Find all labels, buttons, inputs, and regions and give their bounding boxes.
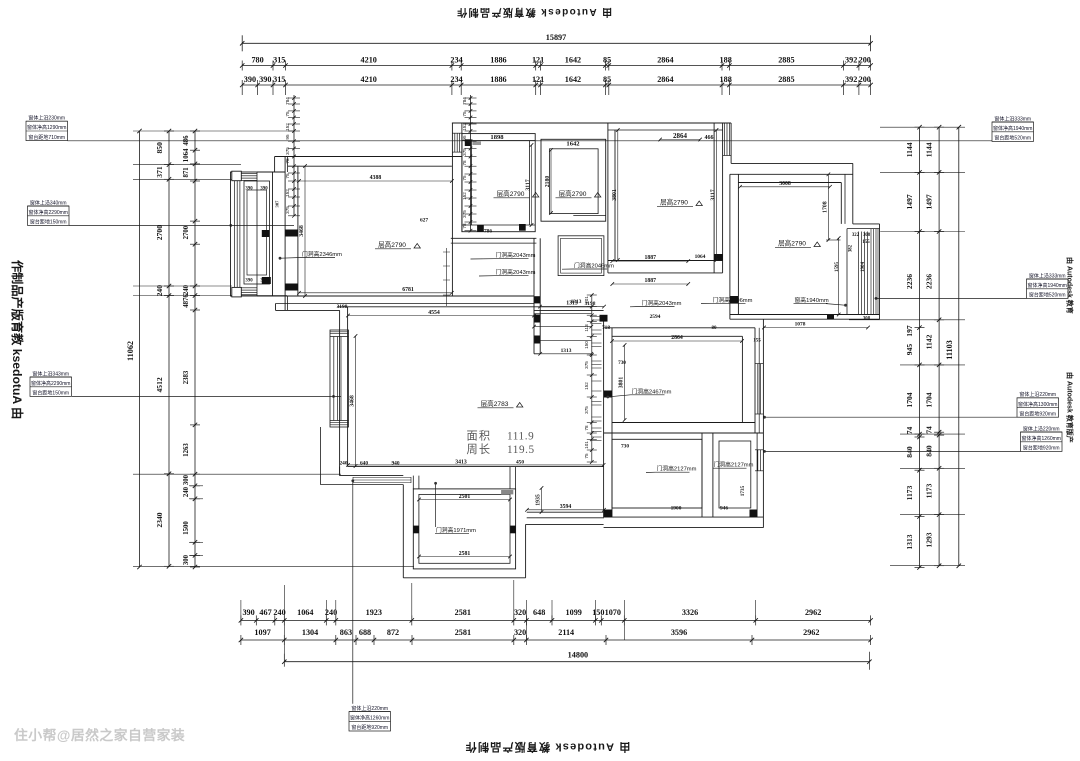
bedroom2 east window [846,229,848,315]
living room south wall inner [285,295,534,297]
svg-text:3413: 3413 [455,460,467,466]
corridor south wall line [534,309,604,311]
svg-text:234: 234 [450,75,462,84]
svg-text:1070: 1070 [605,608,621,617]
svg-text:窗体上沿220mm: 窗体上沿220mm [351,705,388,712]
svg-text:940: 940 [391,461,399,467]
svg-text:152: 152 [462,123,467,131]
east outline vertical 1 [730,123,732,163]
svg-text:面积: 面积 [467,430,492,443]
svg-text:784: 784 [462,97,467,105]
svg-text:95: 95 [462,135,467,141]
bedroom1 east inner [713,123,715,273]
svg-text:101: 101 [584,296,589,304]
dim line 14800 [284,661,869,663]
svg-text:1500: 1500 [183,521,190,535]
svg-text:窗体净高2290mm: 窗体净高2290mm [29,209,68,216]
svg-text:240: 240 [325,608,337,617]
svg-text:152: 152 [584,382,589,390]
bedroom3 south inner [612,422,755,424]
bedroom3 north outer [604,327,755,329]
svg-text:392: 392 [845,75,857,84]
entry door hatch [452,132,462,134]
room K2 [541,139,606,221]
svg-text:2864: 2864 [657,56,673,65]
bedroom2 east inner upper [840,183,842,224]
svg-text:872: 872 [387,628,399,637]
east outline vertical 2 [852,163,854,224]
svg-text:1735: 1735 [740,485,746,496]
svg-text:627: 627 [420,218,428,224]
svg-text:240: 240 [155,285,164,297]
svg-text:74: 74 [905,427,914,435]
svg-text:1313: 1313 [905,534,914,549]
svg-text:作制品产版育教 ksedotuA 由: 作制品产版育教 ksedotuA 由 [10,260,25,419]
svg-text:门洞高2043mm: 门洞高2043mm [496,268,536,276]
living room south wall outer [337,306,591,308]
svg-text:窗台距地920mm: 窗台距地920mm [1023,445,1060,452]
svg-text:1642: 1642 [565,56,581,65]
svg-text:234: 234 [450,56,462,65]
svg-text:786: 786 [484,228,492,234]
svg-text:150: 150 [592,608,604,617]
bedroom3 north inner [612,335,742,337]
living room north wall inner [288,165,452,167]
svg-text:住小帮@居然之家自营家装: 住小帮@居然之家自营家装 [14,727,185,743]
svg-text:4210: 4210 [361,56,377,65]
svg-text:375: 375 [584,361,589,369]
svg-text:390: 390 [242,608,254,617]
svg-text:1900: 1900 [671,506,682,512]
dim line 15897 [242,42,870,44]
svg-text:2700: 2700 [155,225,164,240]
bedroom2 west inner [737,174,739,314]
svg-text:2962: 2962 [805,608,821,617]
bay bottom connect [257,295,285,297]
living room west wall outer [284,157,286,311]
wall column fill 1 [285,230,297,237]
svg-text:718: 718 [602,325,610,331]
svg-text:窗体上沿343mm: 窗体上沿343mm [32,370,69,377]
svg-text:80: 80 [712,326,718,331]
svg-text:6781: 6781 [402,287,414,293]
living room south wall mid [276,303,535,305]
balcony wall fill east [510,526,515,534]
bedroom1 south inner [608,260,723,262]
south outline to bath [526,523,604,525]
svg-text:1642: 1642 [566,141,580,148]
hall west wall b [539,238,541,306]
left chain total line [139,131,141,567]
K1 wall fill a [477,225,484,232]
svg-text:1313: 1313 [561,348,572,354]
svg-text:3594: 3594 [560,504,572,510]
svg-text:2581: 2581 [455,628,471,637]
svg-text:85: 85 [603,56,611,65]
svg-text:门洞高2467mm: 门洞高2467mm [632,387,672,395]
svg-text:1173: 1173 [905,485,914,500]
svg-text:2236: 2236 [905,274,914,289]
svg-text:窗体净高1940mm: 窗体净高1940mm [1028,282,1067,289]
notch horizontal [276,309,340,311]
svg-text:240: 240 [339,461,347,467]
svg-text:2501: 2501 [459,494,471,500]
svg-text:1173: 1173 [925,483,934,498]
svg-text:200: 200 [859,56,871,65]
left chain B [168,131,170,567]
svg-text:层高2790: 层高2790 [559,189,587,198]
svg-text:155: 155 [862,240,870,245]
svg-text:2594: 2594 [650,314,661,320]
svg-text:390: 390 [260,187,268,192]
interior dimension lines [299,180,452,182]
hall dim line b [534,326,591,328]
svg-text:窗体上沿230mm: 窗体上沿230mm [28,115,65,122]
connector L2 [69,224,294,226]
micro chain at x=294 [293,95,295,216]
svg-text:1935: 1935 [536,494,542,506]
svg-text:308: 308 [863,233,871,238]
hallway chain rungs [591,316,601,318]
svg-text:200: 200 [859,75,871,84]
entry west wall inner [461,123,463,232]
corridor band b [451,242,537,244]
svg-text:由 Autodesk 教育: 由 Autodesk 教育 [1066,257,1075,314]
corridor band a [451,237,537,239]
svg-text:11103: 11103 [945,340,954,360]
svg-text:2236: 2236 [925,274,934,289]
svg-text:1064: 1064 [183,148,190,162]
svg-text:1313: 1313 [571,299,582,305]
bedroom1 wall fill [714,254,722,261]
svg-text:1595: 1595 [835,262,840,273]
svg-text:121: 121 [532,56,544,65]
svg-text:11062: 11062 [126,341,135,361]
svg-text:188: 188 [720,56,732,65]
bedroom3 south outer [604,432,764,434]
svg-text:95: 95 [285,134,290,140]
svg-text:840: 840 [905,446,914,458]
svg-text:14800: 14800 [568,651,588,660]
svg-text:窗体净高1260mm: 窗体净高1260mm [350,715,389,722]
hallway micro dim chain x=591.8 [591,295,593,462]
svg-text:78: 78 [462,223,467,229]
K1 gray block [472,141,481,145]
svg-text:1497: 1497 [905,194,914,209]
bedroom2 south inner [730,314,880,316]
svg-text:1704: 1704 [905,392,914,407]
svg-text:75: 75 [462,111,467,117]
svg-text:1099: 1099 [566,608,582,617]
svg-text:窗台距地710mm: 窗台距地710mm [28,134,65,141]
right extension lines [880,126,965,128]
bedroom2 south wall fill [827,315,834,319]
svg-text:315: 315 [273,75,285,84]
svg-text:300: 300 [183,554,190,565]
connector B1 vertical [352,481,354,704]
bedroom3 west inner [611,328,613,517]
svg-text:3468: 3468 [299,225,305,237]
svg-text:1144: 1144 [905,142,914,157]
right chain 1 [919,127,921,567]
svg-text:由 Autodesk 教育版产品制作: 由 Autodesk 教育版产品制作 [465,741,631,755]
svg-text:1887: 1887 [644,255,656,261]
bottom extension lines [240,600,242,620]
svg-text:1898: 1898 [490,134,504,141]
svg-text:2962: 2962 [803,628,819,637]
east outer wall lower [762,319,764,527]
svg-text:390: 390 [245,187,253,192]
dining west wall outer [339,310,341,475]
bathroom [612,439,702,508]
svg-text:75: 75 [462,175,467,181]
svg-text:75: 75 [285,111,290,117]
svg-text:2700: 2700 [183,225,190,239]
balcony outer west [402,485,404,578]
living room west wall inner [297,166,299,296]
svg-text:240: 240 [183,486,190,497]
svg-text:层高2783: 层高2783 [481,399,509,408]
svg-text:850: 850 [155,142,164,154]
hall dim line a [534,313,591,315]
svg-text:152: 152 [285,123,290,131]
svg-text:层高2790: 层高2790 [497,189,525,198]
svg-text:320: 320 [514,608,526,617]
svg-text:945: 945 [905,344,914,356]
bedroom2 north inner [738,182,841,184]
svg-text:871: 871 [183,167,190,178]
svg-text:155: 155 [753,339,761,344]
svg-text:窗高1940mm: 窗高1940mm [795,296,829,304]
svg-text:1304: 1304 [302,628,318,637]
svg-text:730: 730 [618,360,626,366]
bedroom1 south outer [608,272,723,274]
svg-text:窗体净高1300mm: 窗体净高1300mm [1018,401,1057,408]
svg-text:2114: 2114 [558,628,574,637]
dining west window [330,330,349,427]
hall east wall stub b [539,307,541,354]
svg-text:375: 375 [462,148,467,156]
svg-text:1497: 1497 [925,194,934,209]
hall dim line c [540,339,591,341]
dim row 2 [242,84,870,86]
long connector line y=141 [68,140,993,142]
svg-text:75: 75 [285,173,290,179]
svg-text:78: 78 [584,425,589,431]
svg-text:门洞高2127mm: 门洞高2127mm [714,461,754,469]
svg-text:1293: 1293 [925,532,934,547]
svg-text:2885: 2885 [778,75,794,84]
svg-text:3326: 3326 [682,608,698,617]
svg-text:75: 75 [584,453,589,459]
toilet room [719,441,751,508]
svg-text:1144: 1144 [925,142,934,157]
svg-text:780: 780 [251,56,263,65]
svg-text:730: 730 [621,444,629,450]
svg-text:周长: 周长 [467,443,492,456]
svg-text:窗体上沿333mm: 窗体上沿333mm [994,115,1031,122]
east outline vertical 3 [879,224,881,319]
svg-text:3801: 3801 [612,189,618,201]
svg-text:窗体净高1260mm: 窗体净高1260mm [1022,435,1061,442]
svg-text:2885: 2885 [778,56,794,65]
bedroom2 wall fill [730,296,738,303]
dim row 1 [242,65,870,67]
svg-text:3596: 3596 [671,628,687,637]
bedroom2 north outer [730,173,853,175]
bedroom3 wall fill door [604,391,612,398]
bay top connect [257,171,285,173]
svg-text:300: 300 [183,474,190,485]
svg-text:150: 150 [584,341,589,349]
connector R2 [875,297,1027,299]
svg-text:4388: 4388 [370,175,382,181]
svg-text:窗体净高1940mm: 窗体净高1940mm [993,125,1032,132]
connector R4 [763,450,1020,452]
bedroom1 north window [724,123,726,156]
svg-text:784: 784 [285,97,290,105]
svg-text:门洞高2043mm: 门洞高2043mm [496,251,536,259]
right chain 3 total 11103 [958,127,960,566]
svg-text:窗台距地520mm: 窗台距地520mm [994,135,1031,142]
K1 wall fill c [465,139,472,146]
dim 1313 line [540,353,591,355]
svg-text:375: 375 [285,206,290,214]
svg-text:1704: 1704 [925,392,934,407]
bedroom3 east outer [754,328,756,433]
bath wall fill se [750,510,758,518]
svg-text:1886: 1886 [490,56,506,65]
svg-text:由 Autodesk 教育版产品制作: 由 Autodesk 教育版产品制作 [456,6,612,19]
dining south wall inner [348,466,604,468]
bath south outer [604,527,764,529]
svg-text:113: 113 [584,324,589,332]
hall stub fill a [534,315,540,323]
svg-text:320: 320 [514,628,526,637]
svg-text:152: 152 [462,192,467,200]
corridor south wall b [527,517,604,519]
hall west wall a [533,238,535,306]
svg-text:层高2790: 层高2790 [778,239,806,248]
bottom dim row 2 [241,639,871,641]
svg-text:1078: 1078 [795,322,806,328]
svg-text:371: 371 [155,166,164,178]
bath south inner [604,516,764,518]
svg-text:1923: 1923 [366,608,382,617]
balcony wall inner rect [419,494,510,563]
svg-text:1708: 1708 [822,201,828,213]
svg-text:窗台距地920mm: 窗台距地920mm [1019,410,1056,417]
svg-text:门洞高2127mm: 门洞高2127mm [657,465,697,473]
hall stub fill b [534,336,540,344]
svg-text:层高2790: 层高2790 [660,198,688,207]
east outline horizontal 1 [731,162,853,164]
bedroom1 west inner [614,130,616,261]
balcony gray block [501,490,513,494]
svg-text:840: 840 [925,445,934,457]
svg-text:由 Autodesk 教育版产: 由 Autodesk 教育版产 [1066,372,1075,443]
connector L3 [72,395,341,397]
svg-text:308: 308 [863,317,871,322]
hall wall fill [534,296,540,303]
svg-text:375: 375 [285,147,290,155]
svg-text:648: 648 [533,608,545,617]
svg-text:315: 315 [273,56,285,65]
corner west [274,157,276,173]
svg-text:1097: 1097 [254,628,270,637]
svg-text:1904: 1904 [861,262,866,273]
svg-text:152: 152 [285,189,290,197]
svg-text:382: 382 [849,244,854,252]
svg-text:3198: 3198 [337,304,348,310]
svg-text:2581: 2581 [459,551,471,557]
hall east wall stub a [533,307,535,354]
bedroom2 west outer [729,174,731,319]
bath east wall a [701,433,703,517]
corridor south wall a [527,511,604,513]
svg-text:375: 375 [462,210,467,218]
svg-text:15897: 15897 [546,33,566,42]
svg-text:240: 240 [273,608,285,617]
svg-text:窗体上沿220mm: 窗体上沿220mm [1019,391,1056,398]
svg-text:2864: 2864 [673,132,688,140]
svg-text:层高2790: 层高2790 [378,240,406,249]
bath east window [757,450,759,471]
living room north wall outer [275,156,462,158]
svg-text:窗体净高1290mm: 窗体净高1290mm [27,124,66,131]
svg-text:188: 188 [720,75,732,84]
east outline horizontal 2 [853,223,880,225]
closet box [558,236,604,276]
svg-text:1886: 1886 [490,75,506,84]
balcony outer south [403,577,525,579]
svg-text:4554: 4554 [428,310,440,316]
svg-text:2383: 2383 [183,370,190,384]
svg-text:1887: 1887 [644,278,656,284]
svg-text:2340: 2340 [155,512,164,527]
svg-text:119.5: 119.5 [507,444,535,456]
svg-text:2180: 2180 [545,176,551,188]
svg-text:3801: 3801 [619,377,625,389]
svg-text:1263: 1263 [183,443,190,457]
svg-text:466: 466 [705,135,714,141]
bedroom3 east window [757,364,759,414]
svg-text:窗台距地150mm: 窗台距地150mm [32,390,69,397]
right chain 2 [938,127,940,566]
K1 wall fill b [519,224,526,231]
bath wall fill sw [604,510,612,518]
bedroom3 west outer [603,315,605,517]
connector R3 [763,416,1017,418]
left chain C [194,131,196,567]
svg-text:85: 85 [603,75,611,84]
notch vertical [275,304,277,311]
bedroom2 south outer [730,318,880,320]
svg-text:375: 375 [584,406,589,414]
svg-text:3008: 3008 [779,181,791,187]
bay window living room [231,172,273,296]
svg-text:322: 322 [852,233,860,238]
svg-text:窗台距地520mm: 窗台距地520mm [1029,292,1066,299]
svg-text:1142: 1142 [925,334,934,349]
svg-text:197: 197 [905,325,914,337]
svg-text:1064: 1064 [695,254,706,260]
svg-text:467: 467 [259,608,271,617]
door sill hatch dining south [353,477,411,479]
svg-text:2581: 2581 [455,608,471,617]
svg-text:窗体上沿220mm: 窗体上沿220mm [1023,425,1060,432]
svg-text:392: 392 [845,56,857,65]
